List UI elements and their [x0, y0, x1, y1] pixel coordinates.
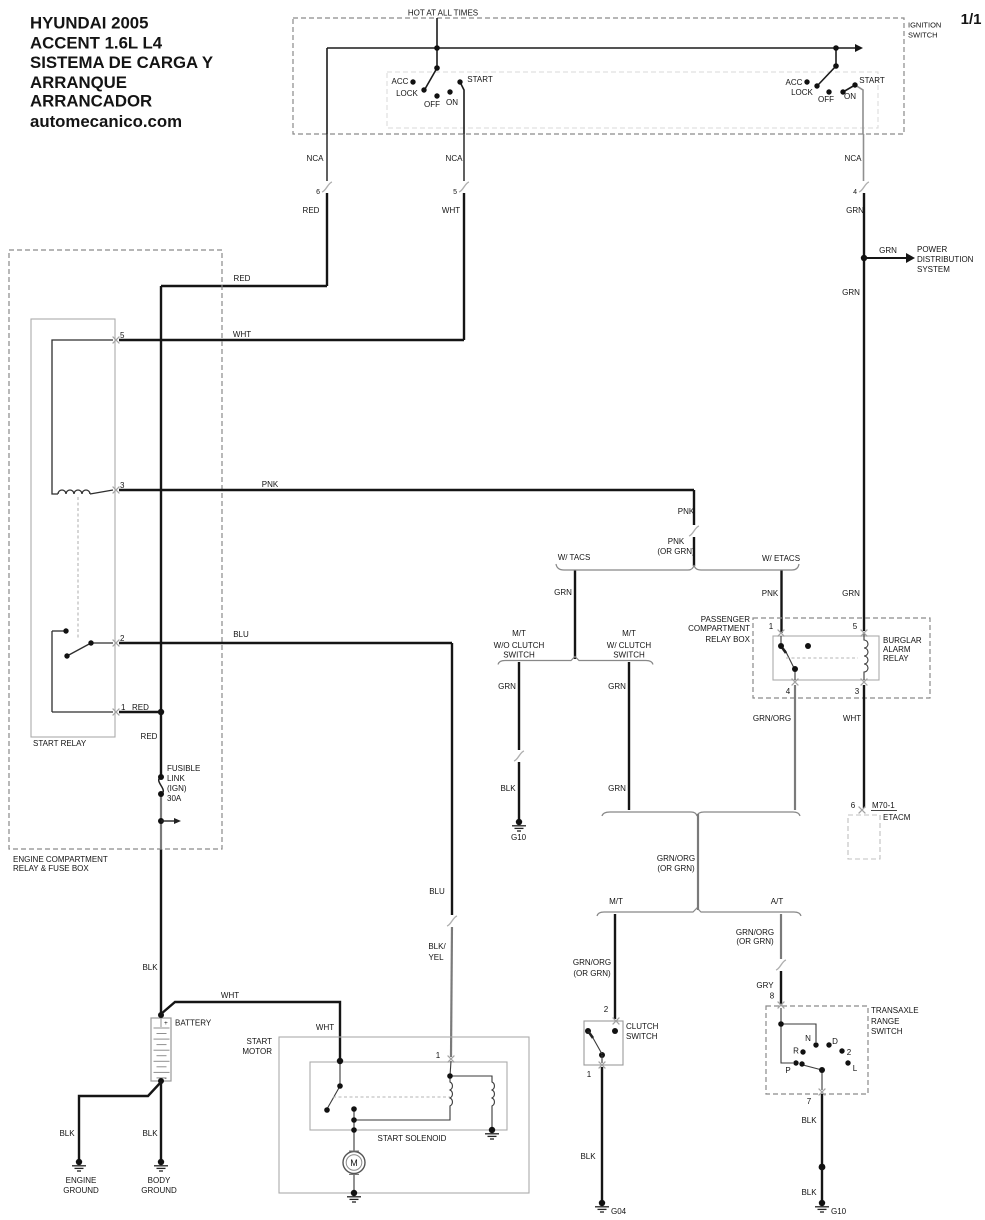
svg-text:COMPARTMENT: COMPARTMENT — [688, 624, 750, 633]
svg-text:YEL: YEL — [428, 953, 444, 962]
svg-text:ON: ON — [446, 98, 458, 107]
svg-text:GRY: GRY — [756, 981, 774, 990]
svg-text:RED: RED — [141, 732, 158, 741]
svg-text:GRN: GRN — [608, 784, 626, 793]
svg-text:GRN: GRN — [842, 288, 860, 297]
svg-text:NCA: NCA — [307, 154, 325, 163]
svg-text:W/ CLUTCH: W/ CLUTCH — [607, 641, 652, 650]
svg-text:MOTOR: MOTOR — [242, 1047, 272, 1056]
svg-text:GRN: GRN — [554, 588, 572, 597]
svg-text:automecanico.com: automecanico.com — [30, 112, 182, 131]
svg-text:SWITCH: SWITCH — [613, 651, 645, 660]
svg-text:BLK: BLK — [801, 1116, 817, 1125]
svg-text:SISTEMA DE CARGA Y: SISTEMA DE CARGA Y — [30, 53, 213, 72]
svg-text:WHT: WHT — [843, 714, 861, 723]
svg-text:M/T: M/T — [512, 629, 526, 638]
svg-text:1: 1 — [436, 1051, 441, 1060]
svg-text:GRN: GRN — [846, 206, 864, 215]
svg-text:START RELAY: START RELAY — [33, 739, 87, 748]
svg-text:SWITCH: SWITCH — [908, 31, 938, 40]
svg-text:ARRANCADOR: ARRANCADOR — [30, 92, 152, 111]
svg-text:M70-1: M70-1 — [872, 801, 895, 810]
svg-text:+: + — [164, 1020, 168, 1027]
svg-text:LOCK: LOCK — [396, 89, 418, 98]
svg-text:LINK: LINK — [167, 774, 185, 783]
svg-text:ETACM: ETACM — [883, 813, 911, 822]
svg-text:M: M — [350, 1158, 358, 1168]
svg-text:M/T: M/T — [609, 897, 623, 906]
svg-text:ENGINE COMPARTMENT: ENGINE COMPARTMENT — [13, 855, 108, 864]
svg-text:G04: G04 — [611, 1207, 627, 1216]
svg-text:2: 2 — [120, 634, 125, 643]
svg-text:BLK/: BLK/ — [428, 942, 446, 951]
svg-text:4: 4 — [786, 687, 791, 696]
svg-text:1/1: 1/1 — [961, 11, 982, 28]
svg-text:DISTRIBUTION: DISTRIBUTION — [917, 255, 974, 264]
svg-text:4: 4 — [853, 189, 857, 196]
svg-text:30A: 30A — [167, 794, 182, 803]
svg-text:W/ ETACS: W/ ETACS — [762, 554, 800, 563]
svg-text:5: 5 — [453, 189, 457, 196]
svg-text:NCA: NCA — [446, 154, 464, 163]
svg-text:NCA: NCA — [845, 154, 863, 163]
svg-text:BODY: BODY — [148, 1176, 171, 1185]
svg-text:(OR GRN): (OR GRN) — [736, 937, 774, 946]
svg-text:3: 3 — [120, 481, 125, 490]
svg-text:START SOLENOID: START SOLENOID — [378, 1134, 447, 1143]
svg-text:ARRANQUE: ARRANQUE — [30, 73, 127, 92]
svg-text:BLK: BLK — [142, 1129, 158, 1138]
svg-text:RED: RED — [132, 703, 149, 712]
svg-text:RELAY & FUSE BOX: RELAY & FUSE BOX — [13, 864, 89, 873]
svg-text:BATTERY: BATTERY — [175, 1019, 212, 1028]
svg-text:ENGINE: ENGINE — [66, 1176, 97, 1185]
svg-text:WHT: WHT — [316, 1023, 334, 1032]
svg-text:RELAY: RELAY — [883, 654, 909, 663]
svg-text:M/T: M/T — [622, 629, 636, 638]
svg-text:WHT: WHT — [442, 206, 460, 215]
svg-text:GRN: GRN — [879, 246, 897, 255]
svg-text:PNK: PNK — [678, 507, 695, 516]
svg-text:HYUNDAI 2005: HYUNDAI 2005 — [30, 14, 148, 33]
svg-text:GRN/ORG: GRN/ORG — [753, 714, 791, 723]
svg-text:RELAY BOX: RELAY BOX — [705, 635, 750, 644]
svg-text:ACCENT 1.6L L4: ACCENT 1.6L L4 — [30, 34, 163, 53]
svg-text:GROUND: GROUND — [141, 1186, 177, 1195]
svg-text:RED: RED — [303, 206, 320, 215]
svg-text:RANGE: RANGE — [871, 1017, 899, 1026]
svg-text:SWITCH: SWITCH — [871, 1027, 903, 1036]
svg-text:N: N — [805, 1034, 811, 1043]
svg-text:5: 5 — [120, 331, 125, 340]
svg-text:ON: ON — [844, 92, 856, 101]
svg-text:R: R — [793, 1047, 799, 1056]
svg-text:ALARM: ALARM — [883, 645, 911, 654]
svg-text:W/O CLUTCH: W/O CLUTCH — [494, 641, 545, 650]
svg-text:GRN/ORG: GRN/ORG — [573, 958, 611, 967]
svg-text:PNK: PNK — [668, 537, 685, 546]
svg-text:(IGN): (IGN) — [167, 784, 187, 793]
svg-text:OFF: OFF — [424, 100, 440, 109]
svg-text:5: 5 — [853, 622, 858, 631]
svg-text:TRANSAXLE: TRANSAXLE — [871, 1006, 919, 1015]
svg-text:BLK: BLK — [142, 963, 158, 972]
svg-text:3: 3 — [855, 687, 860, 696]
svg-text:P: P — [785, 1066, 790, 1075]
svg-text:GRN: GRN — [498, 682, 516, 691]
svg-text:L: L — [853, 1064, 858, 1073]
svg-text:ACC: ACC — [392, 77, 409, 86]
svg-text:RED: RED — [234, 274, 251, 283]
svg-text:WHT: WHT — [221, 991, 239, 1000]
svg-text:BLU: BLU — [233, 630, 249, 639]
svg-text:GRN: GRN — [608, 682, 626, 691]
svg-text:(OR GRN): (OR GRN) — [657, 864, 695, 873]
svg-text:G10: G10 — [831, 1207, 847, 1216]
svg-text:BLK: BLK — [500, 784, 516, 793]
svg-text:SWITCH: SWITCH — [626, 1032, 658, 1041]
svg-text:WHT: WHT — [233, 330, 251, 339]
svg-text:BURGLAR: BURGLAR — [883, 636, 922, 645]
svg-text:1: 1 — [769, 622, 774, 631]
svg-text:6: 6 — [851, 801, 856, 810]
svg-text:FUSIBLE: FUSIBLE — [167, 764, 200, 773]
svg-text:2: 2 — [604, 1005, 609, 1014]
svg-text:W/ TACS: W/ TACS — [558, 553, 591, 562]
svg-text:LOCK: LOCK — [791, 88, 813, 97]
svg-text:START: START — [247, 1037, 273, 1046]
svg-text:PASSENGER: PASSENGER — [701, 615, 750, 624]
svg-text:START: START — [467, 75, 493, 84]
svg-text:GRN: GRN — [842, 589, 860, 598]
svg-text:1: 1 — [587, 1070, 592, 1079]
svg-text:6: 6 — [316, 189, 320, 196]
svg-text:SWITCH: SWITCH — [503, 651, 535, 660]
svg-text:BLK: BLK — [59, 1129, 75, 1138]
svg-text:IGNITION: IGNITION — [908, 21, 941, 30]
svg-text:7: 7 — [807, 1097, 812, 1106]
svg-text:SYSTEM: SYSTEM — [917, 265, 950, 274]
svg-text:D: D — [832, 1037, 838, 1046]
svg-text:START: START — [859, 76, 885, 85]
svg-text:(OR GRN): (OR GRN) — [657, 547, 695, 556]
svg-text:8: 8 — [770, 992, 775, 1001]
svg-text:GRN/ORG: GRN/ORG — [657, 854, 695, 863]
svg-text:PNK: PNK — [262, 480, 279, 489]
svg-text:HOT AT ALL TIMES: HOT AT ALL TIMES — [408, 9, 478, 18]
svg-text:2: 2 — [847, 1048, 852, 1057]
svg-text:-: - — [165, 1075, 167, 1082]
svg-text:OFF: OFF — [818, 95, 834, 104]
svg-text:GROUND: GROUND — [63, 1186, 99, 1195]
svg-text:POWER: POWER — [917, 245, 947, 254]
svg-text:CLUTCH: CLUTCH — [626, 1022, 659, 1031]
svg-text:1: 1 — [121, 703, 126, 712]
svg-text:A/T: A/T — [771, 897, 784, 906]
svg-text:G10: G10 — [511, 833, 527, 842]
svg-text:BLK: BLK — [801, 1188, 817, 1197]
svg-text:BLK: BLK — [580, 1152, 596, 1161]
svg-text:BLU: BLU — [429, 887, 445, 896]
svg-text:ACC: ACC — [786, 78, 803, 87]
svg-text:(OR GRN): (OR GRN) — [573, 969, 611, 978]
svg-text:PNK: PNK — [762, 589, 779, 598]
svg-text:GRN/ORG: GRN/ORG — [736, 928, 774, 937]
